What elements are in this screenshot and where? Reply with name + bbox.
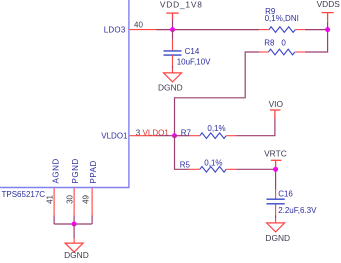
svg-text:DGND: DGND [64,250,89,260]
resistor R7 [200,133,226,139]
junction at VLDO1 [172,133,177,138]
wire VLDO1 junction to R7 [175,135,190,137]
svg-text:10uF,10V: 10uF,10V [177,57,211,66]
resistor R8 right stub [295,51,305,53]
svg-text:0,1%,DNI: 0,1%,DNI [265,14,299,23]
wire junction down to C14 [172,30,174,40]
resistor R9 right stub [295,29,305,31]
svg-text:40: 40 [134,21,143,30]
svg-text:LDO3: LDO3 [104,25,126,34]
junction at ground bus [72,222,77,227]
junction at LDO3 / VDD_1V8 [170,27,175,32]
pin PGND pin line [73,188,75,215]
capacitor C14 bottom pin [172,55,174,66]
resistor R5 [200,167,226,173]
svg-text:VIO: VIO [269,99,284,109]
wire PPAD pin down [91,216,93,225]
svg-text:0,1%: 0,1% [207,124,225,133]
resistor R7 left stub [189,135,200,137]
svg-text:PGND: PGND [71,158,80,183]
svg-text:VRTC: VRTC [264,149,287,159]
svg-text:R7: R7 [181,128,192,137]
resistor R9 left stub [259,29,269,31]
svg-text:DGND: DGND [265,233,290,243]
pin PPAD pin line [91,188,93,215]
wire C16 to DGND [275,216,277,219]
wire VDDS junction down to R8 [305,30,328,52]
wire R5 to VRTC junction [237,168,276,170]
resistor R8 [268,49,294,55]
wire R8 left down to mid rail [175,52,260,136]
capacitor C16 top pin [275,190,277,199]
resistor R5 left stub [189,168,200,170]
wire ground bus joining AGND PGND PPAD [54,223,92,225]
wire VLDO1 pin to junction [157,135,175,137]
resistor R5 right stub [226,168,236,170]
ground DGND at C14 [164,73,182,82]
pin AGND pin line [53,188,55,215]
ground DGND stub at IC [73,238,75,243]
wire VRTC junction down to C16 [275,169,277,189]
wire PGND pin down [73,216,75,225]
pin VLDO1 pin line [130,135,157,137]
ground DGND stub at C14 [172,69,174,73]
ground DGND stub at C16 [275,219,277,223]
IC U1 TPS65217C body [0,0,129,188]
power symbol VDD_1V8 [166,13,178,19]
svg-text:0: 0 [281,38,286,47]
svg-text:TPS65217C: TPS65217C [2,190,46,199]
svg-text:0,1%: 0,1% [204,159,222,168]
resistor R7 right stub [226,135,236,137]
power symbol VDDS [322,13,334,22]
power symbol VRTC [271,160,282,167]
resistor R9 [269,27,295,33]
svg-text:R5: R5 [180,161,191,170]
junction at VDDS [325,27,330,32]
svg-text:VDDS: VDDS [317,0,341,9]
wire LDO3 pin to junction to R9 [157,29,260,31]
resistor R8 left stub [259,51,268,53]
power symbol VIO [270,110,281,119]
wire C14 to DGND [172,66,174,69]
wire VLDO1 junction down to R5 [175,136,190,170]
svg-text:VDD_1V8: VDD_1V8 [160,0,203,9]
svg-text:41: 41 [45,194,54,203]
svg-text:C14: C14 [185,47,200,56]
svg-text:49: 49 [82,194,91,203]
ground DGND at C16 [267,223,285,232]
wire AGND pin down [53,216,55,225]
junction at VRTC [273,167,278,172]
svg-text:PPAD: PPAD [89,160,98,183]
wire VRTC stub to junction [275,168,277,170]
svg-text:AGND: AGND [52,158,61,183]
capacitor C14 top pin [172,40,174,50]
wire VDDS to junction [327,22,329,30]
ground DGND at IC [65,243,83,252]
svg-text:30: 30 [65,194,74,203]
wire ground bus down to DGND [73,224,75,238]
svg-text:DGND: DGND [158,83,183,93]
wire R9 to VDDS junction [305,29,328,31]
svg-text:VLDO1: VLDO1 [101,132,128,141]
wire R7 to VIO [237,119,275,136]
svg-text:2.2uF,6.3V: 2.2uF,6.3V [278,206,317,215]
capacitor C14 [164,51,182,55]
svg-text:R8: R8 [264,38,275,47]
capacitor C16 bottom pin [275,204,277,215]
pin LDO3 pin line [130,29,157,31]
wire VDD_1V8 vertical into junction [172,20,174,30]
capacitor C16 [267,199,285,204]
svg-text:C16: C16 [278,189,293,198]
